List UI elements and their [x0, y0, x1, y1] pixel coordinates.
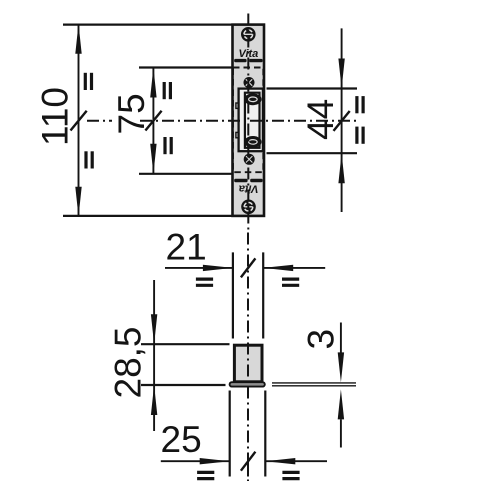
- symmetry slash on 21: [241, 258, 256, 277]
- equality marks 25: [197, 472, 300, 478]
- latch tab upper: [236, 103, 239, 108]
- latch oval lower: [244, 136, 261, 148]
- latch keeper box: [239, 89, 263, 152]
- strike plate body (front view): [233, 25, 265, 216]
- keeper box (section): [234, 345, 262, 382]
- extension line 28,5 bottom: [141, 384, 226, 386]
- equality marks 110: [85, 73, 92, 169]
- dimension line 110: [75, 24, 81, 217]
- latch oval upper: [244, 93, 261, 105]
- extension line 44 top: [267, 87, 358, 89]
- logo text top: [234, 48, 262, 62]
- extension line 75 bottom: [139, 173, 233, 175]
- svg-text:21: 21: [166, 227, 207, 268]
- dimension line 25: [161, 458, 327, 464]
- symmetry slash on 110: [71, 111, 87, 131]
- screw bottom: [241, 200, 256, 215]
- extension line 75 top: [139, 66, 233, 68]
- extension lines 21: [232, 252, 234, 338]
- svg-text:44: 44: [300, 99, 341, 140]
- svg-text:28,5: 28,5: [108, 326, 149, 398]
- svg-text:3: 3: [301, 329, 342, 350]
- svg-text:110: 110: [35, 87, 76, 146]
- latch tab lower: [236, 132, 239, 137]
- extension line 44 bottom: [267, 152, 358, 154]
- dimension line 44: [338, 28, 344, 212]
- dimension line 75: [150, 68, 156, 174]
- faceplate edge lines right: [272, 382, 356, 384]
- small screw upper: [244, 77, 255, 88]
- equality marks 75: [164, 82, 171, 154]
- extension line 28,5 top: [141, 343, 230, 345]
- dimension line 21: [165, 265, 325, 271]
- equality marks 21: [196, 279, 299, 285]
- latch inner slot: [245, 93, 260, 148]
- symmetry slash on 25: [241, 452, 256, 471]
- svg-text:25: 25: [161, 419, 202, 460]
- vertical centerline (section view): [247, 233, 249, 453]
- dashed cutout rectangle: [233, 68, 263, 173]
- dimension line 3: [338, 323, 344, 448]
- extension lines 25: [229, 391, 231, 477]
- logo text bottom (rotated 180): [234, 179, 262, 195]
- extension line 110 bottom: [63, 215, 232, 217]
- symmetry slash on 44: [334, 111, 350, 131]
- faceplate flange (section): [230, 382, 265, 386]
- symmetry slash on 75: [145, 111, 161, 131]
- dimension line 28,5: [151, 280, 157, 431]
- screw top: [241, 27, 256, 42]
- small screw lower: [244, 154, 255, 165]
- extension line 110 top: [63, 24, 232, 26]
- vertical centerline (front view): [247, 14, 249, 232]
- horizontal centerline (front view): [87, 120, 112, 122]
- equality marks 44: [357, 96, 363, 144]
